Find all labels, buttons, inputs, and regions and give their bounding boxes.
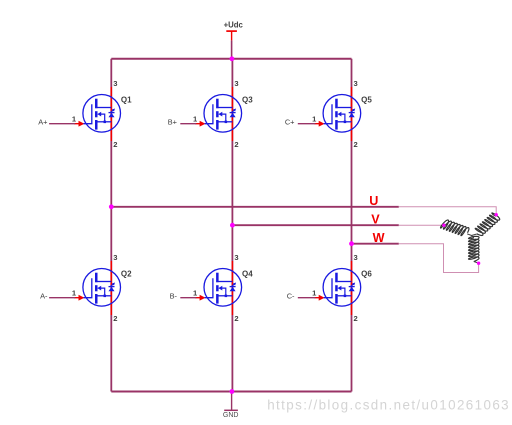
svg-text:Q5: Q5 [361,95,372,104]
node V coil terminal [442,224,445,227]
svg-text:Q2: Q2 [121,269,132,278]
transistor Q2 [72,253,121,323]
power +Udc [224,20,244,59]
transistor Q6 [312,253,361,323]
net A- gate wire [49,297,75,299]
net W wire [352,243,399,245]
junction node V [230,223,235,228]
wire phase B leg [231,59,233,392]
wire phase C leg [351,59,353,392]
junction +Udc bus [230,56,235,61]
node W coil terminal [477,262,480,265]
svg-text:U: U [369,194,378,208]
wire GND bottom bus [111,391,351,393]
inductor winding phase U (right coil) [475,213,500,236]
net B- gate wire [180,297,196,299]
transistor Q5 [312,79,361,149]
svg-text:https://blog.csdn.net/u0102610: https://blog.csdn.net/u010261063 [267,398,510,413]
junction node W [349,241,354,246]
svg-text:Q6: Q6 [361,269,372,278]
junction GND bus [230,389,235,394]
svg-text:C+: C+ [285,117,295,126]
net C- gate wire [298,297,316,299]
svg-text:Q4: Q4 [242,269,253,278]
wire +Udc top bus [111,58,351,60]
node U coil terminal [495,213,498,216]
net W motor wire [399,244,479,273]
svg-text:C-: C- [287,291,295,300]
transistor Q3 [193,79,242,149]
net B+ gate wire [180,123,196,125]
net V motor wire [399,224,444,226]
net V wire [232,224,398,226]
net U motor wire [399,207,496,215]
junction node U [109,204,114,209]
svg-text:V: V [371,213,380,227]
net A+ gate wire [49,123,75,125]
transistor Q4 [193,253,242,323]
svg-text:A-: A- [40,291,48,300]
ground GND [223,392,239,420]
wire phase A leg [110,59,112,392]
svg-text:B-: B- [170,291,178,300]
svg-text:B+: B+ [168,117,177,126]
net U wire [111,206,399,208]
inductor winding phase W (bottom coil) [469,236,480,261]
svg-text:Q3: Q3 [242,95,253,104]
net C+ gate wire [298,123,316,125]
transistor Q1 [72,79,121,149]
svg-text:A+: A+ [38,117,47,126]
svg-text:GND: GND [223,412,239,419]
svg-text:Q1: Q1 [121,95,132,104]
inductor winding phase V (left coil) [441,220,469,236]
svg-text:W: W [373,231,385,245]
wire star point leads [467,215,496,264]
svg-text:+Udc: +Udc [224,20,244,29]
